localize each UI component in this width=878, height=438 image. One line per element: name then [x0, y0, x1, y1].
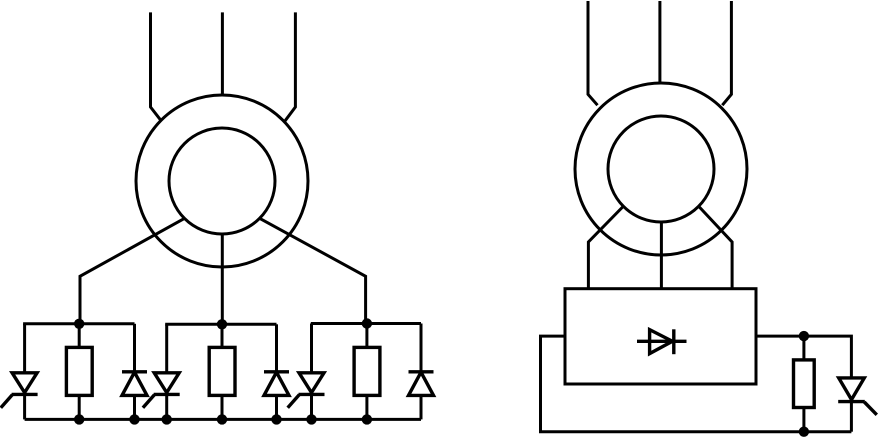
wire top bus phase 2 [165, 323, 276, 326]
node junction bottom R1 [74, 414, 84, 424]
thyristor V5 triangle [299, 373, 324, 393]
node junction bottom V5 [306, 414, 316, 424]
machine M2 inner circle [608, 116, 714, 222]
thyristor V1 gate [1, 395, 13, 408]
machine M2 outer circle [575, 83, 747, 255]
thyristor V3 triangle [154, 373, 179, 393]
node junction phase 2 top [217, 319, 227, 329]
diode V7 triangle [650, 330, 673, 354]
diode V6 cathode wire [420, 324, 423, 372]
machine M1 inner circle [169, 128, 275, 234]
diode V6 triangle [409, 372, 434, 395]
resistor R1 top wire [78, 324, 81, 348]
wire stator lead right (machine M2) [722, 1, 731, 105]
diode V7 wire (inside rectifier) [637, 340, 687, 343]
wire rotor lead right (M1 to phase 3) [260, 218, 366, 324]
resistor R1 bottom wire [78, 395, 81, 419]
diode V4 anode wire [275, 395, 278, 419]
diode V4 cathode bar [264, 370, 289, 373]
wire stator lead middle (machine M2) [658, 1, 661, 83]
wire stator lead middle (machine M1) [221, 12, 224, 95]
wire bottom bus (left circuit) [25, 418, 421, 421]
node junction field resistor bottom [799, 427, 809, 437]
node junction phase 3 top [362, 318, 372, 328]
wire top bus phase 3 [311, 322, 421, 325]
resistor R2 top wire [221, 324, 224, 347]
thyristor V3 cathode bar [154, 393, 180, 396]
node junction bottom R3 [362, 414, 372, 424]
rectifier box U1 [565, 289, 756, 384]
thyristor V3 gate [143, 395, 155, 408]
thyristor V8 cathode wire [850, 402, 853, 432]
machine M1 outer circle [136, 95, 308, 267]
resistor R4 top wire [802, 336, 805, 360]
wire rotor lead left (M1 to phase 1) [80, 218, 184, 324]
thyristor V5 gate [288, 395, 300, 408]
thyristor V8 gate [864, 402, 877, 415]
wire stator lead left (machine M2) [588, 1, 598, 105]
diode V2 cathode wire [133, 324, 136, 372]
diode V2 cathode bar [122, 370, 147, 373]
resistor R2 body [209, 347, 235, 395]
resistor R2 bottom wire [221, 395, 224, 419]
wire rotor lead right (M2 to rectifier) [698, 206, 732, 289]
thyristor V3 anode wire [165, 324, 168, 373]
resistor R4 bottom wire [802, 408, 805, 432]
wire stator lead left (machine M1) [151, 12, 162, 121]
resistor R3 body [354, 347, 380, 395]
thyristor V5 anode wire [310, 324, 313, 373]
resistor R4 body [794, 360, 815, 408]
thyristor V8 triangle [839, 378, 865, 400]
wire rotor lead left (M2 to rectifier) [588, 206, 623, 289]
thyristor V1 cathode wire [23, 394, 26, 419]
wire top bus phase 1 [23, 322, 134, 325]
diode V2 anode wire [133, 395, 136, 419]
wire rotor lead middle (M1 to phase 2) [221, 234, 224, 324]
thyristor V5 cathode bar [299, 393, 325, 396]
diode V2 triangle [122, 372, 147, 395]
thyristor V1 cathode bar [12, 393, 38, 396]
node junction bottom V2 [129, 414, 139, 424]
wire stator lead right (machine M1) [285, 12, 296, 121]
thyristor V1 triangle [12, 373, 37, 393]
diode V7 cathode bar [672, 329, 675, 354]
thyristor V3 cathode wire [165, 394, 168, 419]
wire positive (box right to thyristor branch) [756, 336, 851, 378]
thyristor V5 cathode wire [310, 394, 313, 419]
thyristor V1 anode wire [23, 324, 26, 373]
diode V6 cathode bar [409, 370, 434, 373]
node junction bottom V4 [271, 414, 281, 424]
resistor R3 top wire [365, 324, 368, 348]
resistor R3 bottom wire [365, 395, 368, 419]
thyristor V8 cathode bar [838, 400, 865, 403]
node junction bottom R2 [217, 414, 227, 424]
node junction phase 1 top [74, 319, 84, 329]
node junction bottom V3 [162, 414, 172, 424]
diode V4 cathode wire [275, 324, 278, 372]
wire rotor lead middle (M2 to rectifier) [660, 222, 663, 289]
wire negative loop (box left to bottom bus) [541, 336, 852, 432]
resistor R1 body [66, 347, 92, 395]
diode V4 triangle [264, 372, 289, 395]
diode V6 anode wire [420, 395, 423, 419]
node junction field resistor top [799, 331, 809, 341]
